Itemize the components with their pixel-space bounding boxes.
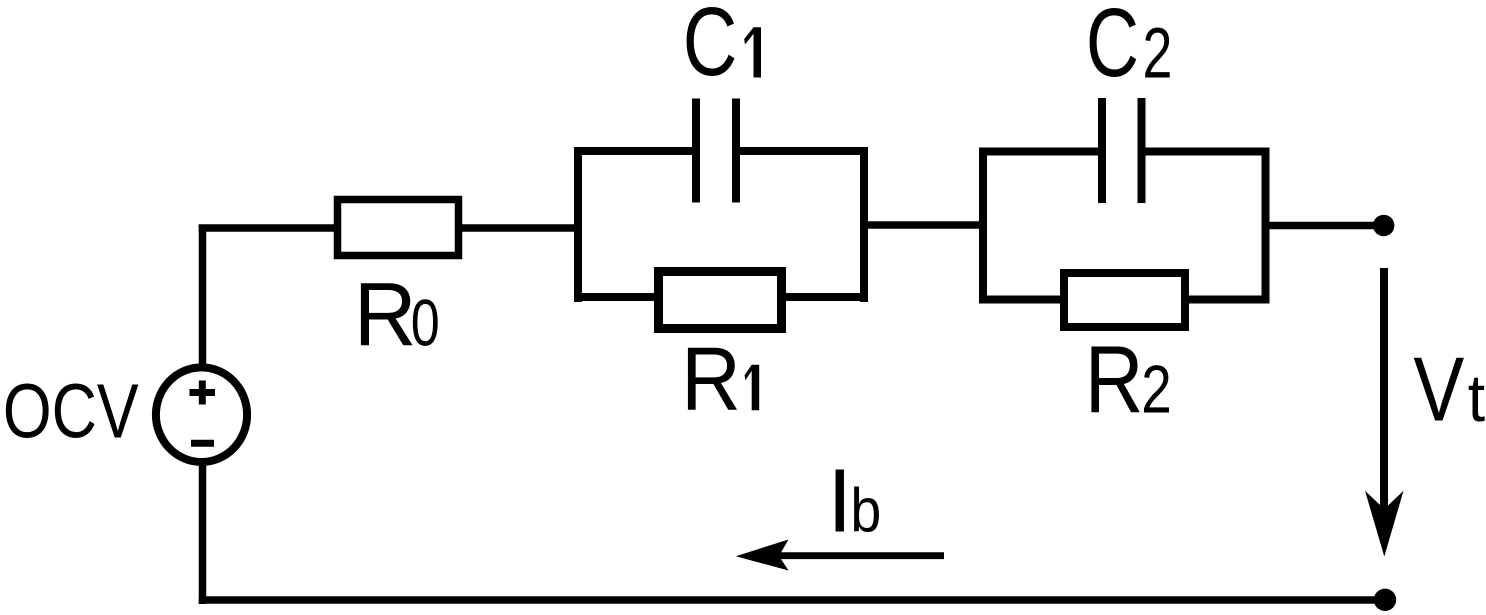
label C1 subscript 1: [744, 27, 761, 77]
RC parallel block 2 outline: left edge: [979, 148, 987, 304]
node: positive output terminal (junction dot): [1373, 215, 1394, 236]
wire: left vertical from top corner down to OCV source top: [199, 225, 207, 367]
wire: block2 top branch left (to C2 left plate): [979, 148, 1098, 156]
wire: block1 bottom branch left (to R1): [574, 293, 656, 301]
svg-text:t: t: [1468, 361, 1486, 436]
capacitor C2 right plate: [1138, 98, 1146, 203]
wire: block2 top branch right (from C2 right plate): [1146, 148, 1270, 156]
resistor R0: [338, 200, 459, 256]
wire: block1 top branch right (from C1 right plate): [740, 147, 868, 155]
resistor R2: [1064, 273, 1185, 327]
wire: R0 to RC block 1: [462, 224, 578, 232]
arrow: Vt arrowhead: [1365, 491, 1404, 557]
RC parallel block 1 outline: left edge: [574, 147, 582, 302]
svg-text:2: 2: [1141, 351, 1172, 427]
arrow: battery current Ib shaft: [779, 552, 944, 559]
svg-text:R: R: [354, 265, 417, 365]
svg-text:V: V: [1413, 340, 1464, 441]
arrow: Ib arrowhead: [736, 540, 789, 571]
wire: block2 bottom branch left (to R2): [979, 296, 1062, 304]
wire: block1 to block2: [864, 221, 983, 229]
svg-text:b: b: [850, 477, 881, 546]
label C2: [1086, 0, 1173, 97]
svg-text:C: C: [1086, 0, 1139, 97]
capacitor C2 left plate: [1098, 98, 1106, 203]
wire: block2 bottom branch right (from R2): [1187, 296, 1270, 304]
label OCV: [3, 369, 139, 455]
label R1: [681, 330, 759, 430]
capacitor C1 left plate: [692, 99, 700, 203]
arrow: terminal voltage Vt shaft: [1380, 268, 1388, 513]
voltage source plus sign: [190, 381, 216, 405]
voltage source OCV (circle): [156, 367, 247, 462]
svg-text:R: R: [681, 330, 741, 430]
label R2: [1085, 327, 1172, 434]
svg-text:2: 2: [1143, 15, 1173, 94]
node: negative output terminal (junction dot): [1374, 589, 1396, 611]
voltage source minus sign: [191, 440, 214, 447]
wire: block1 bottom branch right (from R1): [784, 293, 868, 301]
RC parallel block 2 outline: right edge: [1262, 148, 1270, 304]
label C1: [683, 0, 738, 96]
label R0: [354, 265, 440, 365]
wire: left vertical from OCV source bottom to bottom wire: [199, 463, 207, 604]
capacitor C1 right plate: [732, 99, 740, 203]
label Ib: [827, 452, 881, 552]
wire: block2 to output node: [1270, 222, 1379, 230]
label Vt: [1413, 340, 1485, 441]
svg-text:I: I: [827, 452, 852, 552]
resistor R1: [659, 272, 782, 329]
svg-text:R: R: [1085, 327, 1144, 434]
svg-text:C: C: [683, 0, 738, 96]
svg-text:0: 0: [411, 285, 440, 359]
wire: block1 top branch left (to C1 left plate): [574, 147, 692, 155]
svg-text:OCV: OCV: [3, 369, 139, 455]
wire: bottom return wire: [199, 596, 1376, 604]
wire: top-left horizontal segment from corner to R0: [199, 224, 337, 232]
RC parallel block 1 outline: right edge: [860, 147, 868, 302]
